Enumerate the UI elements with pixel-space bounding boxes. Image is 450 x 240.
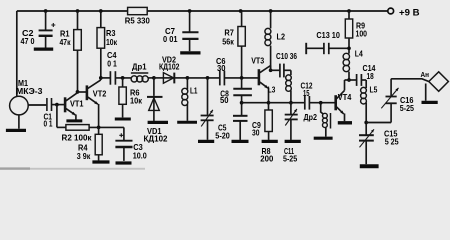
svg-text:30: 30 — [252, 128, 260, 138]
svg-text:VT1: VT1 — [70, 99, 84, 109]
svg-text:0 1: 0 1 — [44, 119, 53, 129]
svg-text:100: 100 — [356, 29, 368, 39]
svg-text:10к: 10к — [106, 37, 118, 47]
svg-text:5-20: 5-20 — [215, 131, 230, 141]
svg-text:50: 50 — [220, 95, 229, 105]
svg-text:L3: L3 — [268, 84, 276, 94]
svg-text:5-25: 5-25 — [283, 154, 297, 164]
svg-text:200: 200 — [260, 154, 273, 164]
svg-text:47к: 47к — [60, 37, 72, 47]
svg-text:3 9к: 3 9к — [77, 151, 91, 161]
svg-text:VT4: VT4 — [338, 92, 352, 102]
svg-text:5 25: 5 25 — [385, 137, 399, 147]
svg-text:КД102: КД102 — [144, 135, 168, 144]
svg-text:30: 30 — [217, 63, 226, 73]
svg-text:0 01: 0 01 — [163, 34, 178, 44]
svg-text:L2: L2 — [277, 31, 286, 41]
svg-text:Др1: Др1 — [132, 62, 147, 72]
svg-text:5-25: 5-25 — [400, 103, 414, 113]
svg-text:C10 36: C10 36 — [276, 52, 297, 61]
svg-text:0 1: 0 1 — [107, 59, 117, 69]
svg-text:L4: L4 — [355, 48, 363, 58]
svg-text:15: 15 — [303, 88, 310, 98]
svg-text:МКЭ-3: МКЭ-3 — [16, 86, 43, 96]
svg-text:10к: 10к — [130, 95, 143, 105]
svg-text:Др2: Др2 — [304, 112, 318, 122]
svg-text:10.0: 10.0 — [133, 150, 147, 160]
svg-text:L5: L5 — [370, 85, 378, 95]
svg-text:18: 18 — [367, 71, 374, 81]
svg-text:+9 В: +9 В — [399, 7, 420, 18]
svg-text:47 0: 47 0 — [21, 36, 35, 46]
svg-text:L1: L1 — [190, 86, 198, 96]
svg-text:R5 330: R5 330 — [125, 15, 150, 25]
svg-text:C13 10: C13 10 — [316, 31, 340, 40]
svg-text:56к: 56к — [222, 36, 234, 46]
svg-text:VT2: VT2 — [93, 89, 107, 99]
svg-text:VT3: VT3 — [251, 56, 264, 66]
svg-text:КД102: КД102 — [159, 63, 180, 72]
svg-text:Ан: Ан — [421, 70, 430, 79]
svg-text:R2 100к: R2 100к — [62, 132, 93, 142]
